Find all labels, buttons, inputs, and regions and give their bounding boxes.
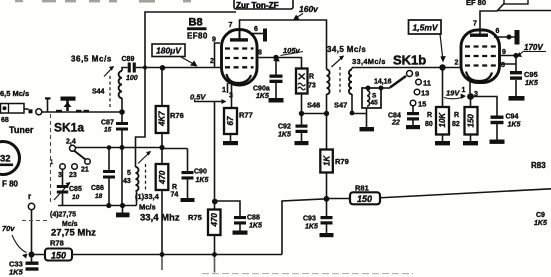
svg-text:2,4: 2,4 [66,139,76,146]
svg-text:5: 5 [127,170,131,177]
svg-text:105v: 105v [283,46,301,55]
svg-text:82: 82 [452,121,460,128]
svg-text:19V: 19V [446,89,460,98]
svg-text:43: 43 [123,178,131,185]
svg-text:32: 32 [0,154,11,165]
svg-text:1K5: 1K5 [305,224,318,231]
svg-text:SK1a: SK1a [54,121,84,135]
svg-text:470: 470 [158,170,167,185]
svg-text:F 80: F 80 [2,180,19,189]
svg-text:Zur Ton-ZF: Zur Ton-ZF [236,1,279,10]
svg-text:27,75 Mhz: 27,75 Mhz [51,228,96,239]
svg-text:R83: R83 [531,161,546,170]
svg-text:1K5: 1K5 [525,80,538,87]
svg-text:EF 80: EF 80 [466,0,486,7]
svg-text:SK1b: SK1b [393,53,426,68]
svg-text:73: 73 [308,83,316,90]
svg-text:C87: C87 [101,120,114,127]
svg-text:68: 68 [1,117,9,124]
svg-text:34,5 Mc/s: 34,5 Mc/s [327,45,366,54]
svg-text:C92: C92 [278,124,291,131]
svg-text:1K5: 1K5 [278,132,291,139]
svg-text:R76: R76 [170,111,184,120]
svg-text:8: 8 [258,50,262,57]
svg-text:15: 15 [104,127,112,134]
svg-text:R78: R78 [50,239,64,248]
svg-text:1K5: 1K5 [508,122,521,129]
svg-text:3: 3 [58,172,62,179]
svg-text:150: 150 [51,251,66,261]
svg-text:6,5 Mc/s: 6,5 Mc/s [0,89,29,98]
svg-text:r: r [28,192,31,201]
svg-text:C86: C86 [91,185,104,192]
svg-text:470: 470 [210,213,219,228]
svg-text:3: 3 [229,93,233,100]
svg-text:7: 7 [473,21,477,28]
svg-text:13: 13 [421,89,429,98]
svg-text:S47: S47 [334,101,347,110]
svg-text:C85: C85 [69,186,82,193]
svg-text:1K5: 1K5 [196,177,209,184]
svg-text:R79: R79 [335,157,349,166]
svg-text:70v: 70v [2,224,15,233]
svg-text:150: 150 [357,194,372,204]
svg-text:R: R [427,112,432,119]
svg-text:10: 10 [72,194,80,201]
svg-text:C94: C94 [506,114,519,121]
svg-text:Tuner: Tuner [9,125,34,135]
svg-text:1: 1 [462,87,466,94]
svg-text:C90a: C90a [253,86,270,93]
svg-text:150: 150 [467,114,476,128]
svg-text:1,5mV: 1,5mV [413,23,439,33]
svg-text:9: 9 [212,37,216,44]
svg-text:C93: C93 [303,216,316,223]
svg-text:100: 100 [126,75,138,82]
svg-text:S46: S46 [307,101,320,110]
svg-text:C88: C88 [247,215,260,222]
svg-text:R: R [309,74,314,81]
svg-text:2: 2 [210,58,214,65]
svg-text:9: 9 [502,49,506,56]
svg-text:R77: R77 [239,111,253,120]
svg-text:R75: R75 [188,213,202,222]
svg-text:14,16: 14,16 [374,79,392,86]
svg-text:R: R [172,184,177,191]
svg-text:23: 23 [69,172,77,179]
svg-text:21: 21 [81,167,89,174]
svg-text:160v: 160v [299,4,319,14]
svg-text:C84: C84 [388,113,401,120]
svg-text:1K5: 1K5 [534,220,547,227]
svg-text:(4)27,75: (4)27,75 [50,212,76,219]
svg-text:80: 80 [425,121,433,128]
svg-text:S44: S44 [92,89,105,96]
svg-text:S: S [372,93,377,100]
svg-text:18: 18 [95,193,103,200]
svg-text:R81: R81 [355,184,369,193]
svg-text:10K: 10K [438,112,447,128]
svg-text:C9: C9 [536,212,545,219]
svg-text:170V: 170V [524,43,543,52]
svg-text:C95: C95 [524,70,538,79]
svg-text:1K: 1K [323,155,332,166]
svg-text:15: 15 [418,100,426,109]
svg-text:11: 11 [423,79,431,88]
svg-text:1: 1 [222,87,226,94]
svg-text:C90: C90 [194,169,207,176]
svg-text:C89: C89 [122,56,135,63]
svg-text:1K5: 1K5 [256,93,269,100]
svg-text:0,5V: 0,5V [190,93,206,102]
svg-text:22: 22 [391,120,400,127]
svg-text:36,5 Mc/s: 36,5 Mc/s [71,55,112,64]
svg-text:Mc/s: Mc/s [139,203,156,212]
svg-text:180μV: 180μV [156,46,182,56]
svg-text:33,4 Mhz: 33,4 Mhz [140,213,180,224]
svg-text:45: 45 [371,100,379,107]
svg-text:74: 74 [171,192,179,199]
svg-text:1K5: 1K5 [249,223,262,230]
svg-text:4K7: 4K7 [157,111,166,127]
svg-text:2: 2 [455,60,459,67]
svg-text:8: 8 [501,62,505,69]
svg-text:33,4Mc/s: 33,4Mc/s [352,57,386,66]
svg-text:B8: B8 [189,17,203,29]
svg-text:3: 3 [474,91,478,98]
svg-text:6: 6 [496,28,500,35]
svg-text:R: R [454,112,459,119]
svg-text:6: 6 [254,26,258,33]
svg-text:7: 7 [229,22,233,29]
svg-text:1K5: 1K5 [9,268,24,277]
svg-text:EF80: EF80 [187,32,208,41]
svg-text:67: 67 [226,116,235,125]
svg-text:9: 9 [415,70,419,79]
svg-text:(1)33,4: (1)33,4 [135,192,160,201]
